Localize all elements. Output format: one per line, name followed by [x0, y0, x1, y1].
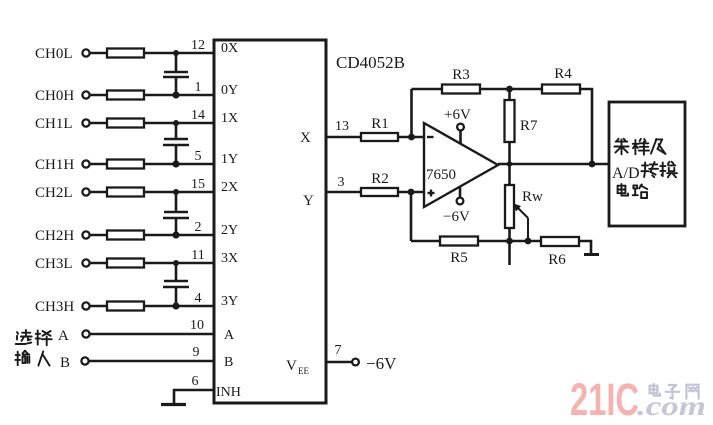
- svg-text:CH2H: CH2H: [35, 228, 74, 244]
- wire CH3H to resistor: [90, 305, 107, 308]
- input terminal CH2H: [35, 228, 90, 244]
- wire C4 upper lead: [175, 263, 178, 281]
- op-amp plus sign: [428, 190, 435, 197]
- label Rw: [522, 189, 543, 205]
- svg-text:CH1H: CH1H: [35, 157, 74, 173]
- node inverting input: [408, 134, 415, 141]
- svg-text:1: 1: [195, 80, 202, 95]
- capacitor C1: [163, 72, 189, 77]
- pin label Y: [303, 193, 314, 209]
- svg-text:10: 10: [190, 318, 204, 333]
- pin 9 number: [193, 345, 200, 360]
- svg-text:+6V: +6V: [444, 107, 471, 123]
- ground INH: [161, 403, 186, 406]
- pin label 3Y: [221, 294, 238, 309]
- resistor R1: [361, 133, 398, 141]
- svg-text:CH0L: CH0L: [35, 46, 73, 62]
- svg-text:14: 14: [191, 108, 205, 123]
- wire CH2L to resistor: [90, 191, 107, 194]
- node junction bottom of C2: [172, 160, 179, 167]
- wire CH2L resistor to node: [144, 191, 176, 194]
- node junction top of C2: [173, 120, 179, 126]
- svg-text:CD4052B: CD4052B: [336, 53, 405, 72]
- wire CH1L to resistor: [90, 122, 107, 125]
- svg-text:R5: R5: [450, 250, 468, 266]
- svg-text:7650: 7650: [426, 167, 456, 183]
- select input A terminal: [58, 328, 90, 344]
- wire Rw bottom lead: [508, 228, 511, 241]
- svg-text:CH0H: CH0H: [35, 88, 74, 104]
- wire R4 to output branch: [580, 89, 592, 164]
- label R6: [548, 252, 566, 268]
- label block line3 (dian-lu): [618, 184, 648, 198]
- label R4: [554, 66, 572, 82]
- input terminal CH1L: [35, 116, 90, 132]
- ground bottom rail: [584, 253, 599, 256]
- wire C2 lower lead: [175, 145, 178, 164]
- svg-text:−6V: −6V: [443, 209, 470, 225]
- svg-text:−6V: −6V: [366, 354, 397, 373]
- svg-text:2Y: 2Y: [221, 223, 238, 238]
- pin 4 number: [195, 291, 202, 306]
- svg-text:EE: EE: [298, 366, 309, 376]
- potentiometer Rw body: [505, 185, 514, 228]
- wire C3 lower lead: [175, 218, 178, 235]
- wire pin 13 X: [326, 136, 361, 139]
- node junction bottom of C4: [172, 302, 179, 309]
- pin label 2X: [221, 180, 238, 195]
- label R3: [452, 67, 470, 83]
- pin label 1Y: [221, 152, 238, 167]
- wire CH2H resistor to node: [144, 234, 176, 237]
- wire CH0L to resistor: [90, 52, 107, 55]
- wire CH3L to resistor: [90, 262, 107, 265]
- pin 6 number: [192, 374, 199, 389]
- pin label A: [224, 328, 235, 343]
- wire CH3L resistor to node: [144, 262, 176, 265]
- svg-text:Y: Y: [303, 193, 314, 209]
- svg-text:6: 6: [192, 374, 199, 389]
- op-amp minus sign: [427, 136, 434, 138]
- node wiper bottom rail: [525, 238, 532, 245]
- svg-text:CH2L: CH2L: [35, 185, 73, 201]
- terminal -6V supply op-amp: [457, 198, 464, 205]
- svg-text:5: 5: [195, 149, 202, 164]
- svg-text:15: 15: [191, 177, 205, 192]
- resistor R2: [361, 188, 398, 196]
- pin 5 number: [195, 149, 202, 164]
- IC U1 CD4052B outline: [214, 40, 326, 403]
- resistor R7: [505, 100, 515, 142]
- svg-text:12: 12: [191, 38, 205, 53]
- logo 21IC: [570, 374, 639, 425]
- svg-text:3X: 3X: [221, 251, 238, 266]
- wire node to pin 15: [176, 191, 214, 194]
- wire C3 upper lead: [175, 192, 178, 212]
- pin 14 number: [191, 108, 205, 123]
- wire node to pin 14: [176, 122, 214, 125]
- wire CH1H resistor to node: [144, 163, 176, 166]
- wire node to pin 4: [176, 305, 214, 308]
- svg-text:R3: R3: [452, 67, 470, 83]
- terminal +6V supply: [457, 124, 464, 131]
- resistor CH3H series: [107, 302, 144, 311]
- terminal -6V supply: [352, 359, 359, 366]
- wire pin 7: [326, 361, 352, 364]
- input terminal CH0H: [35, 88, 90, 104]
- svg-text:2: 2: [195, 220, 202, 235]
- wire CH1L resistor to node: [144, 122, 176, 125]
- pin 1 number: [195, 80, 202, 95]
- label R1: [371, 116, 389, 132]
- wire R7 top lead: [508, 89, 511, 100]
- wire CH1H to resistor: [90, 163, 107, 166]
- pin 12 number: [191, 38, 205, 53]
- op-amp U2 7650: [424, 123, 498, 207]
- wire R1 to inverting node: [398, 136, 424, 139]
- node Rw bottom rail: [506, 238, 513, 245]
- svg-text:.com: .com: [637, 391, 706, 421]
- node junction top of C1: [173, 50, 179, 56]
- node junction top of C4: [173, 260, 179, 266]
- svg-text:X: X: [300, 130, 311, 146]
- resistor CH1H series: [107, 160, 144, 169]
- select input B terminal: [60, 355, 89, 371]
- svg-text:R4: R4: [554, 66, 572, 82]
- wire CH0H resistor to node: [144, 94, 176, 97]
- input terminal CH0L: [35, 46, 90, 62]
- block sampling and A/D converter: [609, 102, 685, 226]
- wire top rail left: [412, 88, 443, 91]
- wire -6V to op-amp: [459, 187, 462, 198]
- wire R6 to ground: [579, 241, 591, 253]
- resistor CH0H series: [107, 91, 144, 100]
- wiper arm Rw: [514, 204, 529, 242]
- svg-text:V: V: [286, 358, 297, 374]
- wire bottom rail left: [411, 240, 440, 243]
- resistor CH3L series: [107, 259, 144, 268]
- resistor CH1L series: [107, 119, 144, 128]
- wire C4 lower lead: [175, 287, 178, 306]
- wire node to pin 2: [176, 234, 214, 237]
- label CD4052B: [336, 53, 405, 72]
- svg-text:7: 7: [335, 343, 342, 358]
- resistor R5: [440, 237, 478, 246]
- wire op-amp output: [498, 163, 609, 166]
- label R2: [371, 171, 389, 187]
- pin label 3X: [221, 251, 238, 266]
- svg-text:3: 3: [338, 175, 345, 190]
- resistor R6: [541, 237, 579, 246]
- pin 13 number: [335, 119, 349, 134]
- wire inverting node to top rail: [410, 89, 413, 137]
- input terminal CH3L: [35, 256, 90, 272]
- svg-text:B: B: [60, 355, 70, 371]
- wire C1 upper lead: [175, 53, 178, 72]
- svg-text:2X: 2X: [221, 180, 238, 195]
- label input (shu-ru): [15, 351, 49, 366]
- resistor R4: [542, 85, 580, 94]
- label 7650: [426, 167, 456, 183]
- svg-text:0Y: 0Y: [221, 83, 238, 98]
- pin 2 number: [195, 220, 202, 235]
- svg-text:A: A: [224, 328, 235, 343]
- wire R5 to R6: [478, 240, 541, 243]
- label block line1 (cai-yang-ji): [614, 139, 665, 155]
- pin label X: [300, 130, 311, 146]
- wire R7 bottom lead: [508, 142, 511, 164]
- pin 10 number: [190, 318, 204, 333]
- label R5: [450, 250, 468, 266]
- capacitor C2: [163, 139, 189, 145]
- wire CH2H to resistor: [90, 234, 107, 237]
- label R7: [520, 118, 538, 134]
- node non-inverting input: [408, 189, 415, 196]
- svg-text:INH: INH: [216, 385, 241, 400]
- node junction bottom of C3: [172, 231, 179, 238]
- svg-text:21IC: 21IC: [570, 374, 639, 425]
- wire output junction to Rw: [508, 164, 511, 185]
- wire R3 to R4: [480, 88, 542, 91]
- svg-text:9: 9: [193, 345, 200, 360]
- svg-text:R6: R6: [548, 252, 566, 268]
- wire +6V to op-amp: [459, 130, 462, 143]
- resistor CH2L series: [107, 188, 144, 197]
- wire R2 to non-inverting node: [398, 191, 424, 194]
- svg-text:1X: 1X: [221, 111, 238, 126]
- node output R4 junction: [589, 161, 596, 168]
- input terminal CH1H: [35, 157, 90, 173]
- pin label 0Y: [221, 83, 238, 98]
- svg-text:R1: R1: [371, 116, 389, 132]
- logo .com: [637, 391, 706, 421]
- wire non-inverting node to bottom rail: [410, 192, 413, 241]
- resistor CH2H series: [107, 231, 144, 240]
- wire pin 6 to ground: [174, 390, 214, 403]
- svg-text:CH3H: CH3H: [35, 299, 74, 315]
- wire CH3H resistor to node: [144, 305, 176, 308]
- node top rail R7 junction: [506, 86, 513, 93]
- pin 15 number: [191, 177, 205, 192]
- pin label INH: [216, 385, 241, 400]
- wire node to pin 11: [176, 262, 214, 265]
- svg-text:A: A: [58, 328, 69, 344]
- svg-text:1Y: 1Y: [221, 152, 238, 167]
- svg-text:R2: R2: [371, 171, 389, 187]
- pin label B: [224, 355, 233, 370]
- svg-text:A/D: A/D: [612, 165, 640, 182]
- svg-text:0X: 0X: [221, 41, 238, 56]
- pin label 2Y: [221, 223, 238, 238]
- wire node to pin 1: [176, 94, 214, 97]
- wire C1 lower lead: [175, 77, 178, 95]
- input terminal CH3H: [35, 299, 90, 315]
- svg-text:CH1L: CH1L: [35, 116, 73, 132]
- pin label 0X: [221, 41, 238, 56]
- label -6V op-amp: [443, 209, 470, 225]
- wire CH0H to resistor: [90, 94, 107, 97]
- wire C2 upper lead: [175, 123, 178, 139]
- resistor R3: [442, 85, 480, 94]
- node junction top of C3: [173, 189, 179, 195]
- wire node to pin 12: [176, 52, 214, 55]
- svg-text:3Y: 3Y: [221, 294, 238, 309]
- pin 11 number: [191, 248, 204, 263]
- label select (xuan-ze): [16, 330, 52, 345]
- capacitor C4: [163, 281, 189, 287]
- label -6V (VEE): [366, 354, 397, 373]
- logo dian-zi-wang: [650, 384, 699, 399]
- svg-text:4: 4: [195, 291, 202, 306]
- svg-text:11: 11: [191, 248, 204, 263]
- wire CH0L resistor to node: [144, 52, 176, 55]
- svg-text:Rw: Rw: [522, 189, 543, 205]
- pin 3 number: [338, 175, 345, 190]
- label block line2 A/D (zhuan-huan): [612, 162, 677, 182]
- node junction bottom of C1: [172, 91, 179, 98]
- resistor CH0L series: [107, 49, 144, 58]
- node output R7 junction: [507, 161, 512, 166]
- pin 7 number: [335, 343, 342, 358]
- wire node to pin 5: [176, 163, 214, 166]
- svg-text:CH3L: CH3L: [35, 256, 73, 272]
- label +6V: [444, 107, 471, 123]
- wire pin 3 Y: [326, 191, 361, 194]
- input terminal CH2L: [35, 185, 90, 201]
- svg-text:13: 13: [335, 119, 349, 134]
- wire A to pin 10: [90, 333, 214, 336]
- svg-text:R7: R7: [520, 118, 538, 134]
- wire B to pin 9: [89, 360, 214, 363]
- pin label VEE: [286, 358, 309, 376]
- capacitor C3: [163, 212, 189, 218]
- pin label 1X: [221, 111, 238, 126]
- stub below bottom rail: [508, 241, 511, 265]
- svg-text:B: B: [224, 355, 233, 370]
